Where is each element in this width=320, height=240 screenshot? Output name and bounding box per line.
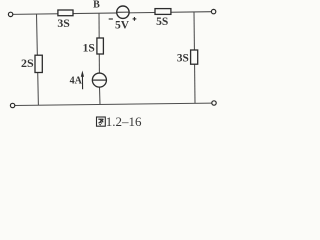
svg-text:5V: 5V bbox=[115, 20, 130, 32]
svg-text:5S: 5S bbox=[156, 16, 168, 28]
svg-text:1S: 1S bbox=[83, 42, 95, 54]
svg-text:B: B bbox=[93, 0, 100, 11]
svg-text:3S: 3S bbox=[177, 53, 189, 65]
svg-text:4A: 4A bbox=[70, 76, 83, 87]
svg-text:1.2–16: 1.2–16 bbox=[106, 114, 142, 129]
svg-text:3S: 3S bbox=[57, 16, 70, 30]
svg-text:2S: 2S bbox=[21, 56, 34, 70]
